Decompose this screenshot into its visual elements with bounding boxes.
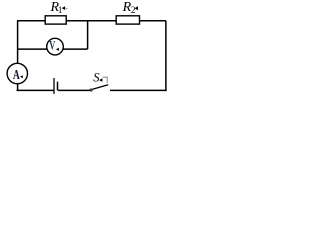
wire top — [17, 20, 166, 22]
svg-text:A: A — [13, 68, 21, 83]
gray formatting mark after S — [103, 77, 108, 83]
ammeter circle — [7, 63, 27, 83]
background — [0, 0, 184, 99]
stray dot after R1 — [66, 8, 68, 9]
resistor R2 — [116, 16, 139, 24]
wire bottom middle segment — [58, 89, 90, 91]
battery short plate — [57, 82, 59, 91]
svg-text:V: V — [49, 39, 55, 53]
resistor R1 — [45, 16, 66, 24]
battery long plate — [53, 78, 55, 94]
wire bottom left segment — [17, 89, 54, 91]
wire voltmeter branch — [17, 48, 88, 50]
wire bottom right segment — [110, 89, 167, 91]
cursor mark after S — [99, 78, 102, 81]
svg-text:2: 2 — [131, 5, 136, 15]
wire right — [165, 21, 167, 91]
voltmeter V1 circle — [47, 38, 64, 55]
switch blade — [93, 85, 109, 89]
cursor mark after R1 — [62, 6, 65, 10]
wire left — [17, 21, 19, 91]
cursor mark after R2 — [135, 6, 138, 10]
svg-text:S: S — [93, 71, 100, 85]
switch pivot circle — [90, 89, 92, 91]
wire middle vertical junction drop — [87, 21, 89, 49]
cursor mark in voltmeter — [56, 48, 59, 51]
cursor mark in ammeter — [20, 75, 23, 78]
svg-text:1: 1 — [58, 5, 63, 15]
